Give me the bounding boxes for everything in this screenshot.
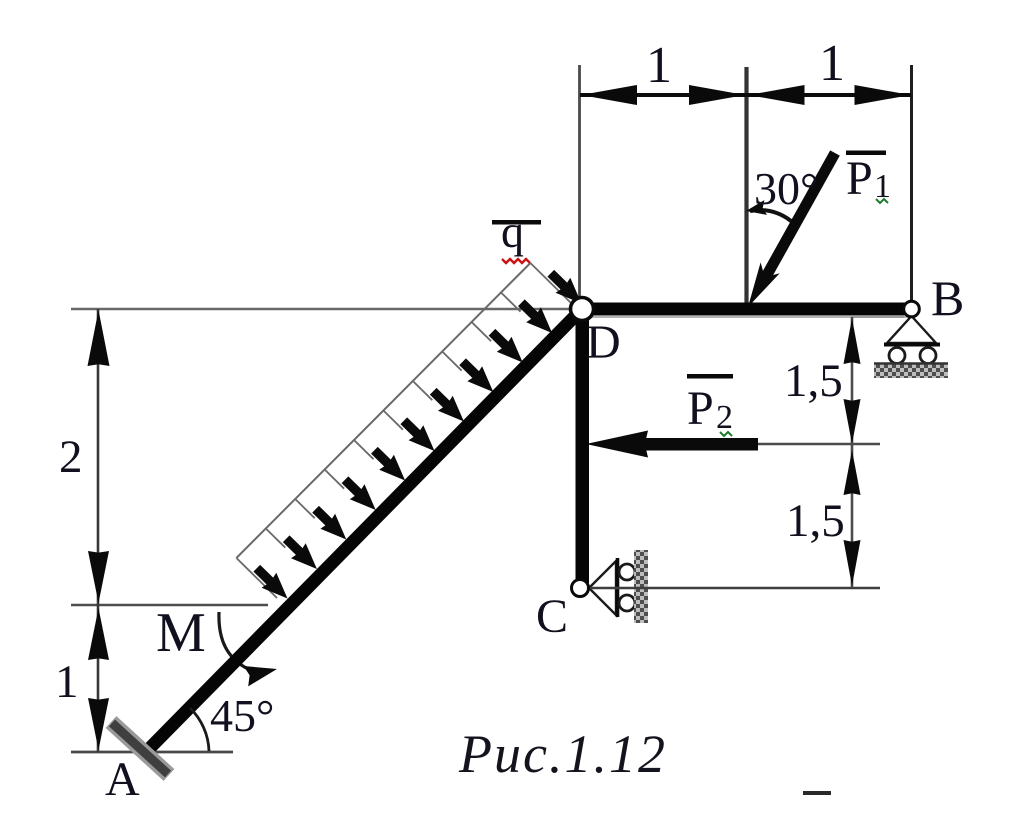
distributed load rung 10 xyxy=(501,293,521,312)
wire: middle-left horizontal reference line xyxy=(71,604,268,607)
arrowhead down at C level xyxy=(844,540,861,586)
distributed load rung 2 xyxy=(266,529,286,548)
svg-text:q: q xyxy=(501,206,524,257)
distributed load arrow 10 xyxy=(521,303,535,317)
30deg arc arrowhead xyxy=(746,200,767,215)
arrowhead up to beam (dim 1,5 top) xyxy=(844,318,861,364)
wire: top horizontal dimension line xyxy=(580,93,911,97)
svg-text:1,5: 1,5 xyxy=(784,355,843,407)
hinge node D xyxy=(571,298,594,321)
support A hatched stroke (light) xyxy=(111,722,169,775)
wire: thin extension line right of P2 xyxy=(756,443,880,445)
svg-text:45°: 45° xyxy=(210,690,274,741)
svg-text:30°: 30° xyxy=(754,163,818,214)
wire: extension line from C to the right xyxy=(589,587,880,589)
svg-text:A: A xyxy=(105,753,140,806)
distributed load arrow 5 xyxy=(374,450,388,464)
wire: right vertical dimension line xyxy=(851,317,854,588)
arrowhead down at bottom line (dim 1 bottom) xyxy=(88,698,109,750)
bar A-D (inclined member) xyxy=(142,313,578,756)
distributed load rung 1 xyxy=(236,558,277,598)
arrowhead up from below P2 line xyxy=(844,450,861,495)
support B roller left xyxy=(889,348,905,364)
wire: extension line above D xyxy=(578,65,581,297)
support B triangle xyxy=(887,316,936,343)
distributed load rung 5 xyxy=(354,440,374,459)
45deg angle arc xyxy=(190,708,209,751)
distributed load arrow 6 xyxy=(404,421,418,435)
svg-text:1: 1 xyxy=(646,37,672,94)
distributed load arrow 3 xyxy=(316,509,330,523)
distributed load rung 4 xyxy=(325,470,345,489)
red spellcheck squiggle under q xyxy=(502,259,530,263)
svg-text:1: 1 xyxy=(55,656,79,708)
svg-text:Puc.1.12: Puc.1.12 xyxy=(458,724,667,784)
support C wall hatch xyxy=(634,550,648,623)
distributed load rung 8 xyxy=(442,352,462,371)
column D-C (vertical member) xyxy=(576,309,590,583)
svg-text:C: C xyxy=(536,590,568,643)
distributed load rung 9 xyxy=(472,322,492,341)
support C roller top xyxy=(619,564,635,580)
moment M arc xyxy=(219,612,248,669)
distributed load arrow 4 xyxy=(345,480,359,494)
hinge node B xyxy=(904,301,920,317)
wire: bottom horizontal ground line at A xyxy=(71,751,233,754)
support C base line xyxy=(616,558,620,617)
distributed load arrow 11 xyxy=(551,273,565,287)
green mark under P2 subscript xyxy=(720,432,732,436)
30deg angle arc xyxy=(750,210,791,221)
svg-text:1,5: 1,5 xyxy=(786,495,845,547)
svg-text:1: 1 xyxy=(819,35,845,92)
arrowhead left at middle vertical xyxy=(749,85,805,105)
distributed load rung 11 xyxy=(530,263,571,303)
hinge node C xyxy=(572,580,589,597)
support B base line xyxy=(884,343,940,347)
arrowhead left at D extension xyxy=(581,85,637,105)
svg-text:2: 2 xyxy=(59,431,83,483)
bottom right dash xyxy=(803,791,831,795)
force P1 arrowhead xyxy=(748,262,780,307)
label P1 overline xyxy=(846,151,886,156)
svg-text:P: P xyxy=(846,152,873,205)
support C roller bottom xyxy=(619,595,635,611)
beam D-B (horizontal member) xyxy=(582,303,912,316)
wire: light line under beam xyxy=(584,316,910,318)
wire: left vertical dimension line xyxy=(97,309,100,752)
arrowhead right at B extension xyxy=(855,85,911,105)
force P1 shaft xyxy=(763,153,835,282)
wire: extension line above B xyxy=(910,65,913,301)
distributed load arrow 7 xyxy=(433,391,447,405)
svg-text:B: B xyxy=(931,270,964,326)
green mark under P1 subscript xyxy=(876,199,888,203)
moment M arrowhead xyxy=(244,666,278,686)
distributed load arrow 2 xyxy=(286,539,300,553)
distributed load q: outer boundary line xyxy=(236,263,530,558)
label q overline xyxy=(492,220,541,225)
distributed load arrow 1 xyxy=(257,568,271,582)
svg-text:D: D xyxy=(586,316,621,369)
distributed load rung 3 xyxy=(295,499,315,518)
svg-text:2: 2 xyxy=(716,399,733,436)
support B roller right xyxy=(920,348,936,364)
wire: short extension right of beam at B level xyxy=(851,316,904,318)
support C triangle xyxy=(589,561,616,615)
distributed load arrow 9 xyxy=(492,332,506,346)
arrowhead up (dim 2 top) xyxy=(88,310,110,366)
arrowhead down to P2 line xyxy=(844,399,861,444)
label P2 overline xyxy=(687,374,733,379)
wire: vertical reference line of P1 (30deg) xyxy=(744,67,748,305)
distributed load rung 6 xyxy=(383,411,403,430)
wire: top-left horizontal reference line at level of D xyxy=(71,308,570,311)
svg-text:P: P xyxy=(687,382,714,435)
support A hatched stroke (dark) xyxy=(112,723,168,774)
support B ground hatch xyxy=(874,363,948,378)
svg-text:M: M xyxy=(156,602,206,664)
distributed load arrow 8 xyxy=(463,362,477,376)
force P2 shaft xyxy=(640,438,758,451)
arrowhead down meeting middle line (dim 2 bottom) xyxy=(88,551,109,603)
distributed load rung 7 xyxy=(413,381,433,400)
force P2 arrowhead xyxy=(586,431,648,458)
arrowhead up below middle line (dim 1 top) xyxy=(88,608,109,660)
arrowhead right at middle vertical xyxy=(689,85,745,105)
